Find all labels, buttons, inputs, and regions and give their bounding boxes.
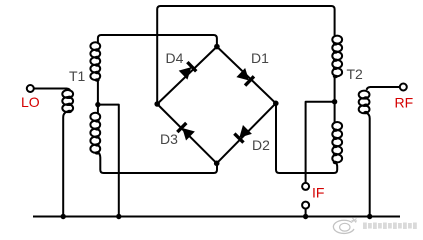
svg-text:LO: LO	[21, 94, 40, 110]
wire IF lower terminal to rail	[305, 209, 307, 216]
terminal IF upper	[302, 183, 309, 190]
svg-text:T1: T1	[69, 68, 86, 84]
junction dot center-tap line at rail	[116, 214, 121, 219]
junction node T1 center tap	[95, 102, 100, 107]
diode D4	[179, 62, 197, 80]
terminal IF lower	[302, 202, 309, 209]
junction dot T1 primary at rail	[61, 214, 66, 219]
svg-text:IF: IF	[312, 185, 324, 201]
transformer T2 primary upper half	[332, 36, 342, 44]
svg-text:T2: T2	[347, 66, 364, 82]
terminal LO	[27, 85, 34, 92]
diode D1	[236, 68, 254, 86]
transformer T2 secondary (RF winding) with RF lead and ground lead	[367, 87, 400, 90]
wire bottom ground rail	[33, 216, 400, 218]
junction node T2 center tap	[332, 99, 337, 104]
junction dot RF winding at rail	[367, 214, 372, 219]
svg-text:D4: D4	[166, 50, 184, 66]
diode D3	[177, 123, 195, 141]
svg-text:D1: D1	[251, 50, 269, 66]
wire T1 center tap to ground rail	[98, 105, 119, 216]
watermark	[333, 218, 416, 233]
svg-text:D2: D2	[252, 137, 270, 153]
wire left node to T2 primary top	[157, 6, 334, 104]
terminal RF	[400, 84, 407, 91]
wire diode ring diamond	[157, 47, 276, 164]
transformer T1 secondary lower half and wire to bottom node	[97, 105, 99, 114]
junction dot IF at rail	[303, 214, 308, 219]
diode D2	[234, 125, 252, 143]
wire T1 secondary top to top node	[98, 35, 217, 45]
junction node right vertex	[273, 101, 279, 107]
junction node bottom vertex	[214, 161, 220, 167]
transformer T1 primary winding with LO lead and ground lead	[34, 89, 70, 92]
svg-text:D3: D3	[160, 131, 178, 147]
wire T2 center tap to IF terminal	[306, 102, 335, 183]
svg-text:RF: RF	[395, 95, 414, 111]
transformer T2 primary lower half and wire to right node	[334, 102, 336, 123]
transformer T1 secondary upper half	[90, 42, 100, 50]
junction node left vertex	[154, 101, 160, 107]
junction node top vertex	[214, 44, 220, 50]
